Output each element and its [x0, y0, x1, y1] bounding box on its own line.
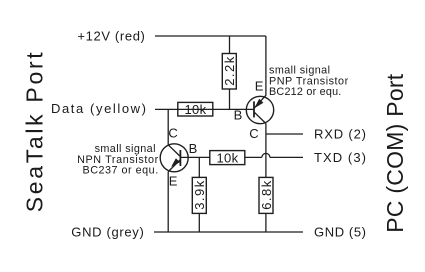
svg-text:PC (COM) Port: PC (COM) Port: [382, 73, 408, 233]
svg-text:GND (grey): GND (grey): [71, 225, 144, 240]
wire 2.2k bottom to Data wire: [229, 89, 231, 109]
svg-text:+12V (red): +12V (red): [77, 28, 144, 43]
wire 3.9k to GND rail: [198, 213, 200, 232]
wire NPN emitter vertical to GND rail: [167, 172, 169, 232]
svg-text:E: E: [255, 78, 264, 93]
resistor 10k upper (Data line): [178, 102, 213, 116]
svg-text:2.2k: 2.2k: [222, 56, 237, 86]
resistor 10k lower (TXD line): [210, 151, 245, 165]
transistor Q1 PNP BC212: [246, 95, 273, 123]
resistor 2.2k: [222, 54, 236, 90]
wire NPN collector vertical: [167, 109, 169, 144]
Q1 base bar: [253, 101, 255, 117]
wire PNP emitter vertical from +12V rail: [265, 36, 267, 96]
svg-text:BC212 or equ.: BC212 or equ.: [269, 86, 341, 98]
wire NPN base to TXD 10k: [180, 156, 209, 158]
svg-text:TXD (3): TXD (3): [314, 150, 366, 165]
Q2 body circle: [160, 144, 188, 172]
svg-text:RXD (2): RXD (2): [314, 126, 366, 141]
svg-text:E: E: [169, 174, 178, 189]
svg-text:10k: 10k: [216, 151, 238, 166]
wire PNP collector vertical down to 6.8k: [265, 124, 267, 178]
wire 2.2k top drop from +12V rail: [229, 36, 231, 54]
wire Data line to PNP base: [155, 108, 254, 110]
Q2 collector diagonal: [168, 145, 180, 157]
Q2 emitter arrow (points outward, NPN): [171, 158, 180, 167]
svg-text:10k: 10k: [184, 102, 206, 117]
svg-text:GND (5): GND (5): [314, 225, 366, 240]
wire 10k to hop: [245, 156, 262, 158]
wire 6.8k to GND rail: [265, 213, 267, 232]
Q2 emitter diagonal: [168, 160, 180, 172]
resistor 6.8k: [259, 177, 273, 213]
svg-text:3.9k: 3.9k: [192, 180, 207, 210]
wire hop to TXD pin: [270, 156, 303, 158]
svg-text:B: B: [234, 107, 243, 122]
svg-text:BC237 or equ.: BC237 or equ.: [83, 165, 159, 177]
wire 3.9k top drop from NPN base wire: [198, 157, 200, 177]
svg-text:Data (yellow): Data (yellow): [51, 101, 146, 116]
Q2 base bar: [179, 150, 181, 166]
wire RXD line: [266, 133, 303, 135]
Q1 collector diagonal: [254, 112, 266, 124]
Q1 emitter arrow (points to base, PNP): [254, 99, 263, 109]
svg-text:SeaTalk Port: SeaTalk Port: [22, 52, 48, 213]
Q1 body circle: [246, 96, 273, 123]
resistor 3.9k: [192, 177, 206, 213]
transistor Q2 NPN BC237: [160, 144, 188, 172]
annotation Q2: small signal NPN Transistor BC237 or equ.: [77, 143, 158, 177]
wire +12V rail: [155, 35, 266, 37]
Q1 emitter diagonal: [254, 95, 266, 108]
wire crossover hop over collector line: [262, 153, 270, 157]
svg-text:C: C: [249, 126, 258, 141]
annotation Q1: small signal PNP Transistor BC212 or equ.: [269, 65, 349, 99]
wire GND rail: [154, 231, 303, 233]
svg-text:B: B: [189, 141, 198, 156]
svg-text:C: C: [168, 126, 177, 141]
svg-text:6.8k: 6.8k: [259, 180, 274, 210]
